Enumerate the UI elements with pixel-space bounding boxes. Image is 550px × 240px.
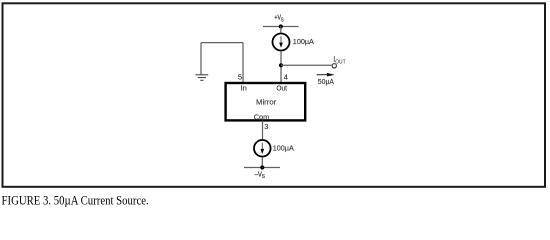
current source I1 (100uA) [273,34,290,51]
wire I1 to pin 4 [280,51,282,83]
svg-text:50µA: 50µA [318,77,334,86]
op block U1 Mirror [226,83,306,120]
svg-text:4: 4 [284,73,288,82]
ground [196,75,209,81]
wire +VS rail to current source I1 [280,27,282,34]
node -VS rail [244,165,280,169]
svg-text:Out: Out [276,84,287,93]
border frame [3,3,546,187]
junction node at pin 4 [279,63,283,67]
svg-text:5: 5 [238,73,242,82]
svg-text:100µA: 100µA [273,144,294,153]
node +VS rail [263,24,299,28]
arrow 50uA current direction [317,73,335,77]
wire pin 3 to current source I2 [262,121,264,140]
terminal IOUT (open circle) [332,64,336,68]
svg-text:FIGURE 3. 50µA Current Source.: FIGURE 3. 50µA Current Source. [2,192,149,207]
svg-text:3: 3 [264,122,268,131]
wire junction to IOUT terminal [281,64,332,66]
svg-text:Mirror: Mirror [256,97,277,106]
svg-text:100µA: 100µA [293,37,314,46]
svg-text:Com: Com [254,112,270,121]
wire ground to pin 5 [201,43,243,83]
current source I2 (100uA) [254,140,271,157]
wire I2 to -VS rail [261,157,263,168]
svg-text:In: In [241,84,247,93]
